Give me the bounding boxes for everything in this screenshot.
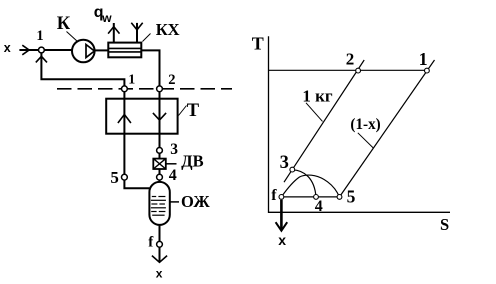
svg-text:ОЖ: ОЖ <box>181 192 210 211</box>
baseline f-4-5 <box>281 196 339 198</box>
up arrowhead in T left branch <box>118 114 131 123</box>
dashed boundary line <box>57 88 232 90</box>
wire node 1 to compressor K <box>44 49 72 51</box>
wire compressor to KX <box>95 49 109 51</box>
pointer line K to compressor <box>67 32 78 42</box>
svg-text:5: 5 <box>347 186 356 206</box>
cooling water inlet down arrow <box>136 23 138 43</box>
svg-text:ДВ: ДВ <box>181 152 203 171</box>
svg-text:T: T <box>252 34 264 54</box>
T and S axes <box>269 36 451 212</box>
svg-text:1: 1 <box>36 28 43 44</box>
pointer line (1-x) to line 1-5 <box>358 133 374 148</box>
node 1 on dashed line <box>122 86 128 92</box>
point f <box>279 195 284 200</box>
svg-text:S: S <box>440 215 449 234</box>
svg-text:4: 4 <box>169 167 177 184</box>
pointer line valve to DV label <box>166 163 177 165</box>
pointer line vessel to OZh label <box>170 201 179 203</box>
down arrowhead in T right branch <box>153 113 166 120</box>
heat exchanger T rectangle <box>106 99 177 134</box>
left branch wire through T <box>123 92 125 175</box>
condenser inner tube lines <box>108 47 141 49</box>
svg-text:2: 2 <box>346 50 355 69</box>
liquid level lines <box>152 196 156 198</box>
point 4 <box>314 195 319 200</box>
svg-text:1: 1 <box>419 49 428 69</box>
right branch wire through T <box>159 92 161 148</box>
valve cross lines <box>153 159 166 169</box>
curve 3 to 4 <box>292 170 316 197</box>
wire node 4 to vessel top <box>159 180 161 183</box>
svg-text:3: 3 <box>170 141 178 158</box>
svg-text:КХ: КХ <box>156 20 180 39</box>
svg-text:x: x <box>4 41 11 55</box>
svg-text:К: К <box>57 14 71 34</box>
svg-text:5: 5 <box>110 168 119 187</box>
node 2 on dashed line <box>157 86 163 92</box>
up arrowhead into node 1 <box>36 56 47 62</box>
svg-text:4: 4 <box>315 198 323 215</box>
svg-text:f: f <box>271 187 277 204</box>
point 3 <box>290 167 295 172</box>
arrowhead on inlet wire <box>22 45 29 55</box>
compressor triangle <box>86 45 94 58</box>
pointer line T label to rect <box>179 106 187 116</box>
node 3 <box>157 148 163 154</box>
point 5 <box>337 195 342 200</box>
svg-text:1 кг: 1 кг <box>302 86 333 105</box>
node 4 <box>157 174 163 180</box>
svg-text:w: w <box>101 11 112 25</box>
condenser KX rectangle <box>108 43 141 58</box>
wire valve to node 4 <box>159 169 161 174</box>
compressor K circle <box>72 40 95 63</box>
node 1 (mixing point) <box>39 47 45 53</box>
svg-text:Т: Т <box>187 101 200 121</box>
process line 2-3 (1 kg) <box>284 60 364 182</box>
pointer line KX label to rect <box>143 34 151 42</box>
svg-text:1: 1 <box>128 73 135 88</box>
outlet wire with down arrow <box>159 247 161 262</box>
cooling water outlet up arrow <box>113 23 115 43</box>
pointer line 1 kg to line 2-3 <box>306 103 323 122</box>
wire inlet x to node 1 <box>19 49 38 51</box>
wire node 3 to valve <box>159 153 161 158</box>
throttle valve DV square <box>153 159 166 169</box>
node 5 <box>122 174 128 180</box>
point 1 <box>425 68 430 73</box>
node f <box>157 241 163 247</box>
thick extraction arrow below f <box>280 200 283 230</box>
svg-text:x: x <box>278 232 286 248</box>
wire node 5 to vessel <box>124 180 149 188</box>
return wire node1(top) down and to node 1 on dashed line <box>41 53 124 86</box>
top isotherm line 2-1 <box>269 69 427 71</box>
process line 1-5 (1-x) <box>340 60 435 197</box>
svg-text:2: 2 <box>168 72 175 88</box>
wire KX to node 2 <box>141 50 159 86</box>
separator vessel OZh <box>149 182 169 225</box>
svg-text:3: 3 <box>280 153 289 173</box>
point 2 <box>356 68 361 73</box>
saturation dome f to 5 <box>282 175 340 197</box>
svg-text:(1-x): (1-x) <box>350 116 380 133</box>
svg-text:x: x <box>156 267 163 279</box>
wire vessel to node f <box>159 225 161 242</box>
